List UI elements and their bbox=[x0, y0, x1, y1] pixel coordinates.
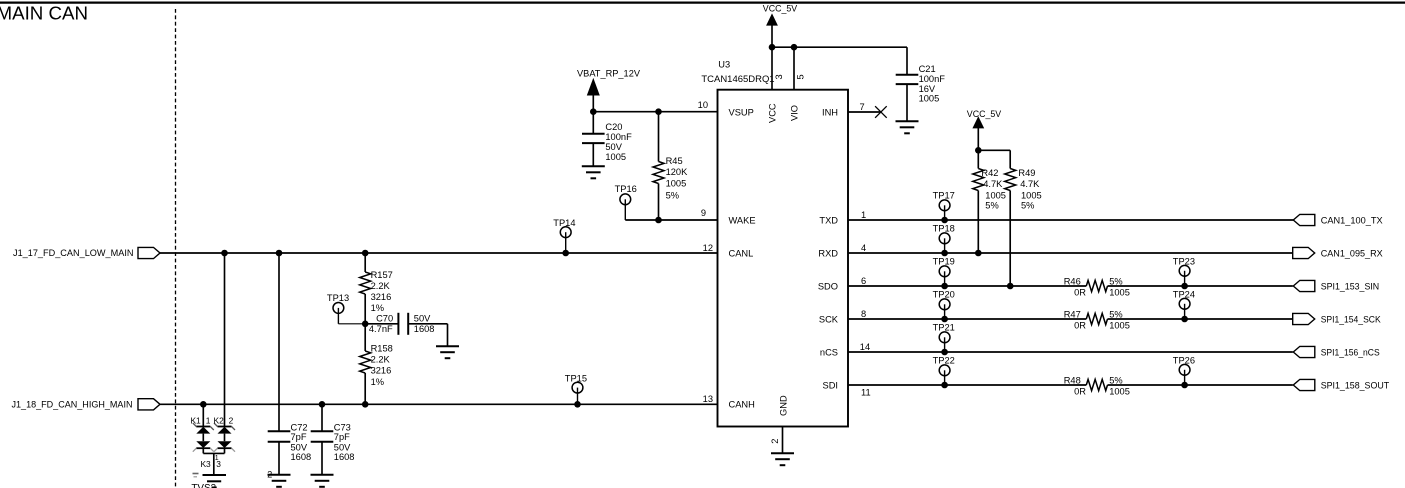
svg-text:5: 5 bbox=[795, 74, 805, 79]
svg-text:7pF: 7pF bbox=[291, 432, 307, 442]
resistor R46 0R bbox=[1086, 280, 1107, 291]
svg-text:nCS: nCS bbox=[820, 347, 838, 357]
svg-text:TXD: TXD bbox=[819, 215, 838, 225]
junction CANL/R157 bbox=[362, 250, 369, 257]
junction VIO stem bbox=[791, 44, 798, 51]
svg-text:SCK: SCK bbox=[819, 314, 839, 324]
svg-text:U3: U3 bbox=[718, 59, 730, 69]
svg-text:2.2K: 2.2K bbox=[371, 281, 391, 291]
wire RXD net bbox=[848, 252, 1293, 254]
ground for C20 bbox=[582, 165, 605, 167]
svg-text:R48: R48 bbox=[1064, 375, 1081, 385]
port CAN1_100_TX bbox=[1293, 214, 1315, 225]
junction CANH/R158 bbox=[362, 401, 369, 408]
svg-text:1%: 1% bbox=[371, 303, 384, 313]
svg-text:1005: 1005 bbox=[1109, 387, 1130, 397]
resistor R157 2.2K bbox=[364, 253, 366, 272]
svg-text:WAKE: WAKE bbox=[729, 215, 756, 225]
svg-text:C21: C21 bbox=[919, 64, 936, 74]
svg-text:120K: 120K bbox=[666, 167, 689, 177]
svg-text:1608: 1608 bbox=[414, 324, 435, 334]
svg-text:TP13: TP13 bbox=[327, 293, 349, 303]
svg-text:CANH: CANH bbox=[729, 400, 755, 410]
svg-text:TP16: TP16 bbox=[615, 184, 637, 194]
svg-text:7pF: 7pF bbox=[334, 432, 350, 442]
svg-text:5%: 5% bbox=[1109, 276, 1122, 286]
wire VSUP net bbox=[593, 111, 717, 113]
svg-text:R46: R46 bbox=[1064, 276, 1081, 286]
svg-text:R157: R157 bbox=[371, 270, 393, 280]
wire WAKE net bbox=[625, 219, 717, 221]
resistor R48 0R bbox=[1086, 379, 1107, 390]
ground for C72 bbox=[268, 474, 291, 476]
op IC U3 TCAN1465DRQ1 body bbox=[718, 90, 849, 427]
svg-text:R49: R49 bbox=[1018, 168, 1035, 178]
svg-text:1%: 1% bbox=[371, 377, 384, 387]
junction CANL/TP14 bbox=[562, 250, 569, 257]
junction VCC stem bbox=[769, 44, 776, 51]
svg-text:3216: 3216 bbox=[371, 366, 392, 376]
svg-text:4.7nF: 4.7nF bbox=[369, 324, 393, 334]
junction CANH/K1 bbox=[200, 401, 207, 408]
svg-text:SPI1_158_SOUT: SPI1_158_SOUT bbox=[1321, 380, 1390, 390]
svg-text:1005: 1005 bbox=[666, 179, 687, 189]
ground for C21 bbox=[896, 120, 919, 122]
svg-text:VBAT_RP_12V: VBAT_RP_12V bbox=[577, 68, 641, 78]
wire K1 branch from CANH down bbox=[202, 404, 204, 426]
junction CANL/K2 bbox=[221, 250, 228, 257]
svg-text:VSUP: VSUP bbox=[729, 107, 754, 117]
resistor R45 120K bbox=[658, 112, 660, 162]
svg-text:CAN1_100_TX: CAN1_100_TX bbox=[1321, 215, 1383, 225]
svg-text:TP21: TP21 bbox=[933, 323, 955, 333]
svg-text:2: 2 bbox=[267, 469, 272, 479]
wire TXD net bbox=[848, 219, 1293, 221]
svg-text:7: 7 bbox=[860, 102, 865, 112]
svg-text:0R: 0R bbox=[1074, 288, 1086, 298]
junction CANH/TP15 bbox=[574, 401, 581, 408]
svg-text:TP20: TP20 bbox=[933, 290, 955, 300]
junction CANL/C72 bbox=[276, 250, 283, 257]
svg-text:1005: 1005 bbox=[1021, 190, 1042, 200]
svg-text:TP22: TP22 bbox=[933, 356, 955, 366]
svg-text:TP18: TP18 bbox=[933, 224, 955, 234]
wire SCK net (right of R47) bbox=[1108, 318, 1293, 320]
port SPI1_153_SIN bbox=[1293, 280, 1315, 291]
svg-text:R47: R47 bbox=[1064, 309, 1081, 319]
TVS common bar and K3 pin 3 bbox=[203, 452, 224, 454]
wire CANL net bbox=[160, 252, 718, 254]
port CAN1_095_RX bbox=[1293, 247, 1315, 258]
svg-text:5%: 5% bbox=[1021, 201, 1034, 211]
svg-text:1005: 1005 bbox=[1109, 321, 1130, 331]
resistor R42 4.7K pullup RXD bbox=[977, 150, 979, 168]
svg-text:SDO: SDO bbox=[818, 281, 838, 291]
svg-text:16V: 16V bbox=[919, 84, 936, 94]
port SPI1_154_SCK bbox=[1293, 313, 1315, 324]
junction pullup rail bbox=[975, 147, 982, 154]
capacitor C70 4.7nF bbox=[365, 323, 398, 325]
svg-text:C20: C20 bbox=[605, 122, 622, 132]
svg-text:VCC_5V: VCC_5V bbox=[967, 109, 1002, 119]
svg-text:J1_18_FD_CAN_HIGH_MAIN: J1_18_FD_CAN_HIGH_MAIN bbox=[12, 400, 133, 410]
svg-text:1005: 1005 bbox=[985, 190, 1006, 200]
svg-text:50V: 50V bbox=[605, 142, 622, 152]
TVS diode K1 pin 1 bbox=[196, 426, 210, 428]
capacitor C72 7pF bbox=[268, 430, 291, 432]
ground for C73 bbox=[311, 474, 334, 476]
svg-text:R42: R42 bbox=[981, 168, 998, 178]
capacitor C21 100nF bbox=[906, 47, 908, 75]
TVS diode K2 pin 2 bbox=[218, 426, 232, 428]
svg-text:INH: INH bbox=[822, 107, 838, 117]
wire SDI net (left of R48) bbox=[848, 384, 1086, 386]
svg-text:4.7K: 4.7K bbox=[983, 179, 1003, 189]
no-connect X on INH bbox=[875, 106, 887, 118]
svg-text:R45: R45 bbox=[666, 156, 683, 166]
junction VBAT/C20 bbox=[590, 108, 597, 115]
svg-text:C72: C72 bbox=[291, 423, 308, 433]
port SPI1_158_SOUT bbox=[1293, 379, 1315, 390]
junction VSUP/R45 bbox=[655, 108, 662, 115]
svg-text:SPI1_156_nCS: SPI1_156_nCS bbox=[1321, 347, 1380, 357]
ground for C70 bbox=[447, 324, 449, 346]
wire K2 branch from CANL down bbox=[224, 253, 226, 427]
svg-text:9: 9 bbox=[701, 208, 706, 218]
junction CANH/C73 bbox=[319, 401, 326, 408]
svg-text:8: 8 bbox=[861, 309, 866, 319]
svg-text:3: 3 bbox=[216, 459, 221, 469]
ground for U3 GND pin bbox=[771, 452, 794, 454]
svg-text:SDI: SDI bbox=[823, 380, 839, 390]
junction WAKE/R45 bbox=[655, 217, 662, 224]
svg-text:5%: 5% bbox=[666, 190, 679, 200]
resistor R47 0R bbox=[1086, 313, 1107, 324]
svg-text:TCAN1465DRQ1: TCAN1465DRQ1 bbox=[701, 74, 774, 84]
svg-text:0R: 0R bbox=[1074, 321, 1086, 331]
hierarchical boundary dashed line bbox=[175, 9, 177, 488]
svg-text:C70: C70 bbox=[376, 314, 393, 324]
svg-text:5%: 5% bbox=[985, 201, 998, 211]
wire nCS net bbox=[848, 351, 1293, 353]
capacitor C20 100nF bbox=[592, 112, 594, 134]
svg-text:100nF: 100nF bbox=[605, 132, 632, 142]
svg-text:TVS3: TVS3 bbox=[191, 483, 216, 488]
svg-text:10: 10 bbox=[698, 100, 708, 110]
svg-text:4: 4 bbox=[861, 243, 866, 253]
svg-text:3: 3 bbox=[774, 74, 784, 79]
svg-text:J1_17_FD_CAN_LOW_MAIN: J1_17_FD_CAN_LOW_MAIN bbox=[13, 248, 134, 258]
svg-text:3216: 3216 bbox=[371, 292, 392, 302]
svg-text:5%: 5% bbox=[1109, 309, 1122, 319]
wire VCC/VIO rail bbox=[772, 46, 907, 48]
wire SCK net (left of R47) bbox=[848, 318, 1086, 320]
port SPI1_156_nCS bbox=[1293, 346, 1315, 357]
svg-text:1005: 1005 bbox=[919, 94, 940, 104]
svg-text:GND: GND bbox=[779, 395, 789, 416]
svg-text:K2: K2 bbox=[214, 415, 225, 425]
svg-text:5%: 5% bbox=[1109, 375, 1122, 385]
wire CANH net bbox=[160, 403, 718, 405]
svg-text:1: 1 bbox=[206, 415, 211, 425]
svg-text:2: 2 bbox=[770, 439, 780, 444]
svg-text:SPI1_154_SCK: SPI1_154_SCK bbox=[1321, 314, 1382, 324]
wire INH stub bbox=[848, 111, 881, 113]
svg-text:100nF: 100nF bbox=[919, 74, 946, 84]
svg-text:SPI1_153_SIN: SPI1_153_SIN bbox=[1321, 281, 1380, 291]
svg-text:CANL: CANL bbox=[729, 248, 754, 258]
svg-text:MAIN CAN: MAIN CAN bbox=[0, 3, 88, 24]
wire SDO net (right of R46) bbox=[1108, 285, 1293, 287]
svg-text:50V: 50V bbox=[334, 442, 351, 452]
svg-text:4.7K: 4.7K bbox=[1020, 179, 1040, 189]
svg-text:CAN1_095_RX: CAN1_095_RX bbox=[1321, 248, 1383, 258]
svg-text:12: 12 bbox=[703, 243, 713, 253]
svg-text:0R: 0R bbox=[1074, 387, 1086, 397]
svg-text:K1: K1 bbox=[190, 415, 201, 425]
svg-text:1005: 1005 bbox=[605, 152, 626, 162]
svg-text:TP17: TP17 bbox=[933, 191, 955, 201]
svg-text:VCC: VCC bbox=[768, 103, 778, 123]
svg-text:C73: C73 bbox=[334, 423, 351, 433]
svg-text:1608: 1608 bbox=[334, 452, 355, 462]
svg-text:1: 1 bbox=[861, 210, 866, 220]
svg-text:R158: R158 bbox=[371, 344, 393, 354]
svg-text:1005: 1005 bbox=[1109, 288, 1130, 298]
svg-text:11: 11 bbox=[861, 388, 871, 398]
svg-text:2.2K: 2.2K bbox=[371, 355, 391, 365]
wire C72 branch from CANL down bbox=[278, 253, 280, 431]
svg-text:50V: 50V bbox=[414, 314, 431, 324]
svg-text:RXD: RXD bbox=[818, 248, 838, 258]
svg-text:13: 13 bbox=[703, 394, 713, 404]
svg-text:14: 14 bbox=[860, 342, 870, 352]
svg-text:50V: 50V bbox=[291, 442, 308, 452]
svg-text:TP19: TP19 bbox=[933, 257, 955, 267]
TVS3 earth ground bbox=[203, 474, 227, 476]
svg-text:2: 2 bbox=[229, 415, 234, 425]
resistor R158 2.2K bbox=[364, 324, 366, 351]
svg-text:K3: K3 bbox=[200, 459, 211, 469]
svg-text:1608: 1608 bbox=[291, 452, 312, 462]
wire SDI net (right of R48) bbox=[1108, 384, 1293, 386]
svg-text:VIO: VIO bbox=[790, 105, 800, 121]
resistor R49 4.7K pullup SDO bbox=[1009, 150, 1011, 168]
svg-text:VCC_5V: VCC_5V bbox=[763, 4, 798, 14]
junction R157/R158/C70 bbox=[362, 321, 369, 328]
svg-text:6: 6 bbox=[861, 276, 866, 286]
capacitor C73 7pF bbox=[321, 404, 323, 431]
wire SDO net (left of R46) bbox=[848, 285, 1086, 287]
